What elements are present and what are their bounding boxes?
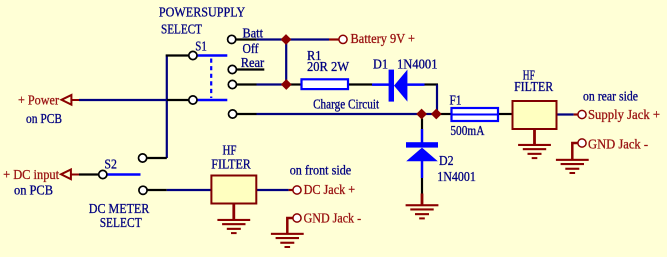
- svg-text:POWERSUPPLY: POWERSUPPLY: [159, 5, 246, 20]
- svg-text:GND Jack -: GND Jack -: [304, 211, 362, 226]
- svg-text:Rear: Rear: [241, 55, 265, 70]
- svg-text:SELECT: SELECT: [161, 22, 203, 37]
- svg-text:SELECT: SELECT: [100, 215, 143, 230]
- svg-text:D1: D1: [373, 57, 388, 72]
- svg-text:DC Jack +: DC Jack +: [304, 182, 356, 197]
- svg-text:DC METER: DC METER: [89, 201, 150, 216]
- svg-text:on PCB: on PCB: [26, 111, 62, 126]
- svg-text:+ Power: + Power: [18, 93, 59, 108]
- svg-text:1N4001: 1N4001: [437, 169, 476, 184]
- svg-text:FILTER: FILTER: [514, 79, 553, 94]
- svg-text:HF: HF: [223, 143, 237, 158]
- svg-text:20R 2W: 20R 2W: [307, 59, 349, 74]
- svg-text:on rear side: on rear side: [583, 89, 638, 104]
- svg-text:on front side: on front side: [290, 163, 352, 178]
- svg-text:Off: Off: [243, 41, 259, 56]
- svg-text:F1: F1: [450, 93, 462, 108]
- svg-text:+ DC input: + DC input: [3, 167, 59, 182]
- svg-text:FILTER: FILTER: [211, 157, 251, 172]
- svg-text:S1: S1: [195, 39, 207, 54]
- svg-text:D2: D2: [439, 153, 454, 168]
- svg-text:1N4001: 1N4001: [397, 57, 438, 72]
- svg-text:Batt: Batt: [243, 26, 264, 41]
- svg-text:on PCB: on PCB: [14, 183, 53, 198]
- svg-text:Charge Circuit: Charge Circuit: [313, 96, 379, 111]
- svg-text:S2: S2: [104, 157, 117, 172]
- svg-text:Battery 9V +: Battery 9V +: [351, 31, 416, 46]
- svg-text:Supply Jack +: Supply Jack +: [588, 107, 660, 122]
- svg-text:500mA: 500mA: [450, 123, 484, 138]
- svg-text:GND Jack -: GND Jack -: [588, 137, 648, 152]
